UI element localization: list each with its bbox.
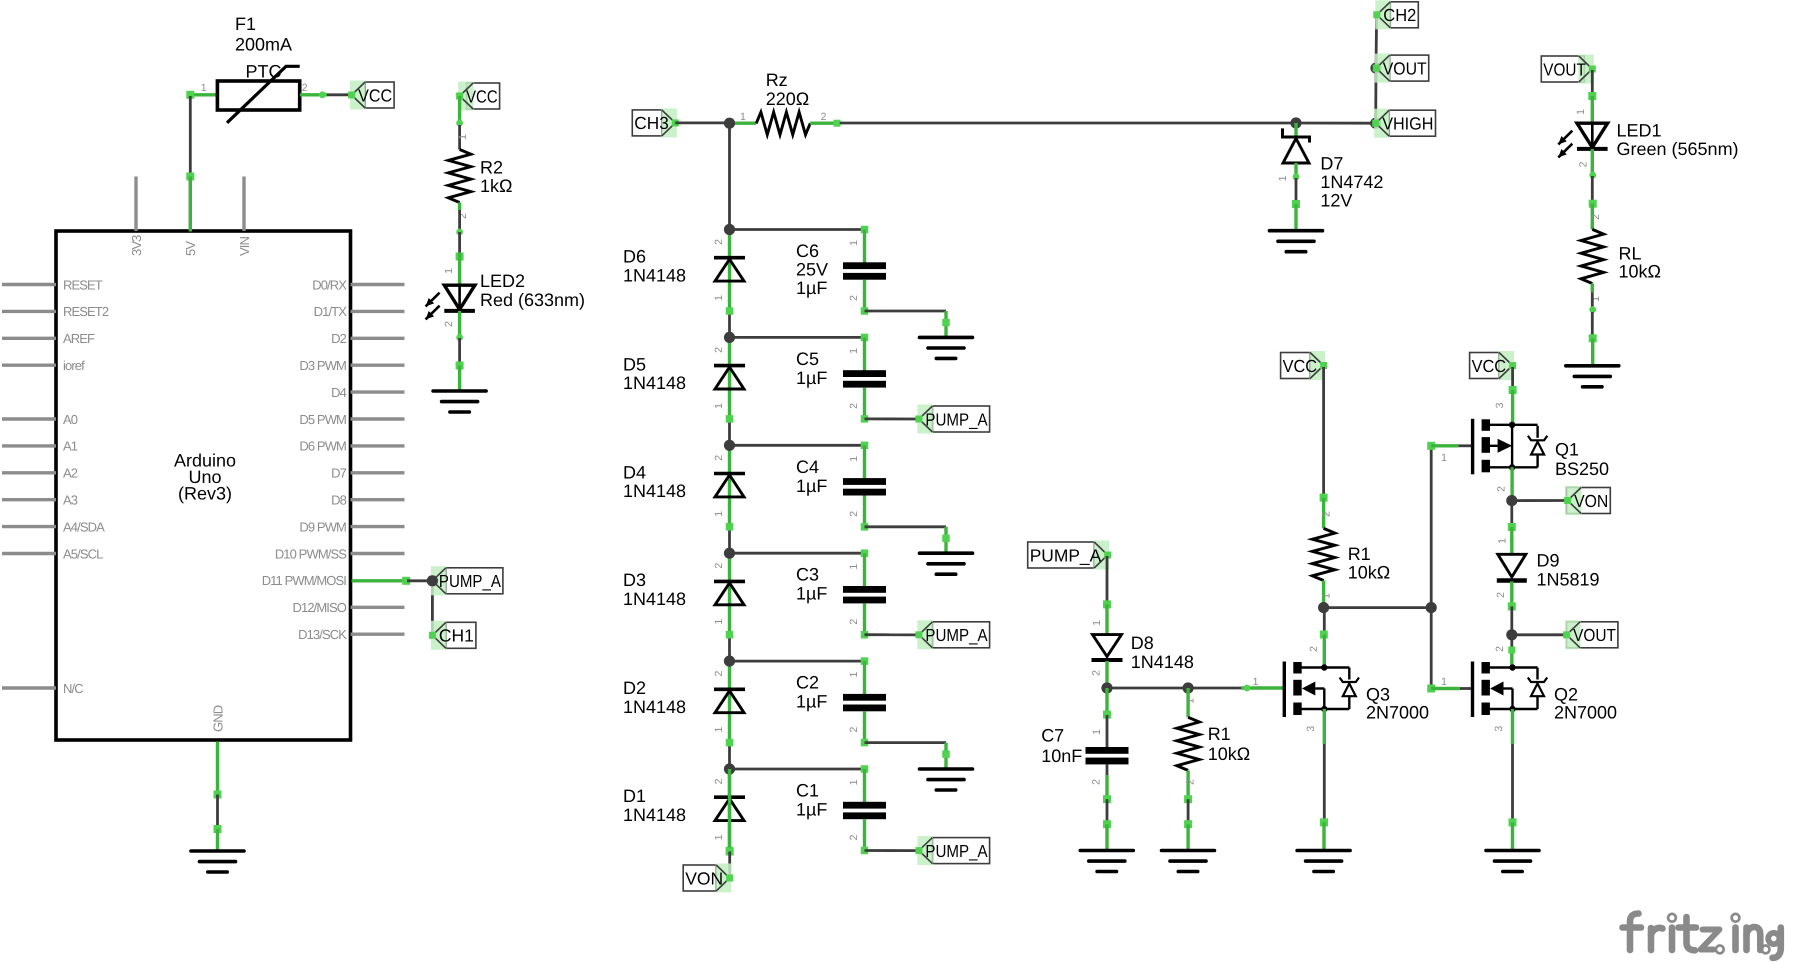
svg-text:PUMP_A: PUMP_A bbox=[925, 409, 987, 429]
svg-text:VOUT: VOUT bbox=[1573, 625, 1616, 645]
pin D3 PWM bbox=[351, 364, 405, 367]
svg-text:1µF: 1µF bbox=[796, 368, 827, 388]
svg-text:1: 1 bbox=[443, 268, 455, 274]
svg-text:D1/TX: D1/TX bbox=[314, 304, 348, 319]
svg-text:1: 1 bbox=[1575, 109, 1587, 115]
svg-text:A2: A2 bbox=[63, 466, 78, 481]
svg-text:ioref: ioref bbox=[63, 358, 85, 373]
node CH2 bbox=[1390, 2, 1418, 28]
node CH1 bbox=[446, 622, 476, 648]
resistor R1 10k (pullup) bbox=[1312, 528, 1335, 580]
wire gate bus vertical bbox=[1430, 446, 1433, 689]
pin D10 PWM/SS bbox=[351, 552, 405, 555]
svg-text:VCC: VCC bbox=[1472, 356, 1507, 376]
wire row to C6 bbox=[730, 228, 865, 231]
diode D4 1N4148 bbox=[714, 472, 745, 476]
wire row to C3 bbox=[730, 552, 865, 555]
svg-text:D7: D7 bbox=[1320, 154, 1343, 174]
op-amp U1 Arduino Uno body bbox=[56, 231, 351, 740]
ground bbox=[1080, 851, 1133, 872]
svg-text:1: 1 bbox=[713, 727, 725, 733]
svg-text:1: 1 bbox=[848, 564, 860, 570]
svg-text:D11 PWM/MOSI: D11 PWM/MOSI bbox=[262, 573, 347, 588]
wire VCC to R1 bbox=[1322, 367, 1325, 498]
svg-text:1µF: 1µF bbox=[796, 692, 827, 712]
ground bbox=[920, 337, 973, 358]
wire Q3 source to ground bbox=[1323, 709, 1326, 744]
ground bbox=[920, 769, 973, 790]
pin D6 PWM bbox=[351, 444, 405, 447]
wire node row D2 bbox=[728, 661, 731, 743]
wire row to C2 bbox=[730, 660, 865, 663]
svg-text:2: 2 bbox=[1321, 511, 1333, 517]
ground bbox=[1297, 851, 1350, 872]
node PUMP_A bbox=[932, 406, 989, 432]
wire Rz to VHIGH bbox=[810, 121, 840, 124]
node CH3 bbox=[632, 110, 662, 136]
wire node row D3 bbox=[728, 553, 731, 635]
svg-text:D7: D7 bbox=[331, 466, 346, 481]
node VCC bbox=[1281, 353, 1311, 379]
svg-text:R1: R1 bbox=[1348, 544, 1371, 564]
transistor Q1 BS250 bbox=[1471, 419, 1474, 475]
pin D5 PWM bbox=[351, 417, 405, 420]
diode D7 zener 1N4742 12V bbox=[1283, 128, 1310, 142]
capacitor C4 1uF bbox=[843, 478, 886, 485]
svg-text:D4: D4 bbox=[331, 385, 346, 400]
svg-text:1N4148: 1N4148 bbox=[1131, 652, 1194, 672]
svg-text:12V: 12V bbox=[1320, 191, 1352, 211]
wire RL to ground bbox=[1591, 284, 1594, 293]
svg-text:1: 1 bbox=[1441, 452, 1447, 464]
node VOUT bbox=[1567, 622, 1618, 648]
svg-text:1N4148: 1N4148 bbox=[623, 373, 686, 393]
diode D8 1N4148 bbox=[1093, 635, 1122, 657]
pin A4/SDA bbox=[2, 525, 56, 528]
svg-text:2: 2 bbox=[443, 321, 455, 327]
svg-text:2: 2 bbox=[848, 403, 860, 409]
node PUMP_A bbox=[932, 838, 989, 864]
wire VCC to Q1 source bbox=[1511, 367, 1514, 390]
svg-text:D6 PWM: D6 PWM bbox=[299, 439, 346, 454]
wire node row D6 bbox=[728, 230, 731, 312]
svg-text:3V3: 3V3 bbox=[129, 235, 144, 256]
svg-text:2: 2 bbox=[848, 834, 860, 840]
ground bbox=[1270, 231, 1323, 252]
pin D2 bbox=[351, 337, 405, 340]
wire Q2 source to ground bbox=[1511, 709, 1514, 744]
svg-text:CH1: CH1 bbox=[439, 626, 474, 646]
resistor R1 10k (gate) bbox=[1186, 688, 1189, 717]
capacitor C3 1uF bbox=[843, 586, 886, 593]
pin RESET2 bbox=[2, 310, 56, 313]
node PUMP_A bbox=[1028, 542, 1095, 568]
wire node row D5 bbox=[728, 337, 731, 419]
svg-text:PUMP_A: PUMP_A bbox=[925, 625, 987, 645]
node VOUT bbox=[1541, 56, 1584, 82]
svg-text:RL: RL bbox=[1619, 243, 1642, 263]
wire D9 to VOUT node bbox=[1510, 581, 1513, 606]
wire CH3 to junction bbox=[675, 122, 729, 125]
svg-text:1N4148: 1N4148 bbox=[623, 805, 686, 825]
pin AREF bbox=[2, 337, 56, 340]
svg-text:VCC: VCC bbox=[1283, 356, 1318, 376]
wire VON node to D9 bbox=[1510, 502, 1513, 527]
svg-text:1: 1 bbox=[1091, 729, 1103, 735]
pin 3V3 bbox=[134, 177, 137, 232]
svg-text:R1: R1 bbox=[1208, 724, 1231, 744]
svg-text:PTC: PTC bbox=[246, 62, 282, 82]
svg-text:D0/RX: D0/RX bbox=[312, 277, 347, 292]
svg-text:D5 PWM: D5 PWM bbox=[299, 412, 346, 427]
resistor R2 1k bbox=[448, 150, 471, 203]
svg-text:F1: F1 bbox=[235, 14, 256, 34]
wire C2 to ground bbox=[865, 741, 947, 744]
svg-text:2: 2 bbox=[848, 295, 860, 301]
svg-text:N/C: N/C bbox=[63, 681, 83, 696]
ground bbox=[433, 391, 486, 412]
svg-text:VOUT: VOUT bbox=[1383, 58, 1427, 78]
wire C5 to PUMP_A bbox=[865, 417, 919, 420]
svg-text:C2: C2 bbox=[796, 673, 819, 693]
diode D3 1N4148 bbox=[714, 580, 745, 584]
wire D8 to node bbox=[1105, 661, 1108, 688]
svg-text:1N4148: 1N4148 bbox=[623, 265, 686, 285]
svg-text:1µF: 1µF bbox=[796, 584, 827, 604]
svg-text:1: 1 bbox=[848, 456, 860, 462]
wire to Q1 gate bbox=[1431, 444, 1458, 447]
svg-text:1kΩ: 1kΩ bbox=[480, 176, 512, 196]
wire junction to Rz bbox=[733, 121, 756, 124]
wire CH2 to VHIGH bbox=[1375, 15, 1378, 68]
wire row to C5 bbox=[730, 336, 865, 339]
svg-text:2: 2 bbox=[1185, 779, 1197, 785]
svg-text:2: 2 bbox=[302, 82, 308, 94]
svg-text:C6: C6 bbox=[796, 241, 819, 261]
pin RESET bbox=[2, 283, 56, 286]
svg-text:3: 3 bbox=[1305, 726, 1317, 732]
wire PUMP_A to D8 bbox=[1106, 556, 1109, 604]
diode D5 1N4148 bbox=[714, 364, 745, 368]
pin A3 bbox=[2, 498, 56, 501]
diode D1 1N4148 bbox=[714, 795, 745, 799]
pin ioref bbox=[2, 364, 56, 367]
svg-text:1N5819: 1N5819 bbox=[1537, 570, 1600, 590]
wire fuse to VCC bbox=[300, 93, 327, 96]
svg-text:10kΩ: 10kΩ bbox=[1348, 563, 1390, 583]
svg-text:25V: 25V bbox=[796, 260, 828, 280]
svg-text:1: 1 bbox=[1497, 538, 1509, 544]
svg-text:220Ω: 220Ω bbox=[766, 89, 810, 109]
svg-text:2: 2 bbox=[713, 239, 725, 245]
wire 5V to fuse bbox=[189, 93, 192, 97]
node VHIGH bbox=[1389, 110, 1435, 136]
pin N/C bbox=[2, 686, 56, 689]
capacitor C6 1uF bbox=[843, 262, 886, 269]
svg-text:A4/SDA: A4/SDA bbox=[63, 519, 105, 534]
wire ladder top bbox=[728, 123, 731, 229]
svg-text:2: 2 bbox=[713, 347, 725, 353]
svg-text:C1: C1 bbox=[796, 781, 819, 801]
svg-text:1: 1 bbox=[848, 348, 860, 354]
svg-text:VOUT: VOUT bbox=[1543, 59, 1586, 79]
svg-text:Rz: Rz bbox=[766, 70, 788, 90]
svg-text:1N4148: 1N4148 bbox=[623, 481, 686, 501]
node PUMP_A bbox=[932, 622, 989, 648]
diode D9 1N5819 bbox=[1498, 554, 1526, 577]
wire to VOUT label bbox=[1512, 633, 1567, 636]
svg-text:GND: GND bbox=[210, 705, 225, 732]
svg-text:Red (633nm): Red (633nm) bbox=[480, 290, 585, 310]
wire C1 to PUMP_A bbox=[865, 849, 919, 852]
pin D0/RX bbox=[351, 283, 405, 286]
svg-text:R2: R2 bbox=[480, 158, 503, 178]
diode D6 1N4148 bbox=[714, 256, 745, 260]
svg-text:5V: 5V bbox=[183, 241, 198, 256]
svg-text:PUMP_A: PUMP_A bbox=[439, 571, 501, 591]
svg-text:3: 3 bbox=[1494, 402, 1506, 408]
pin D1/TX bbox=[351, 310, 405, 313]
svg-text:3: 3 bbox=[1493, 726, 1505, 732]
wire C3 to PUMP_A bbox=[865, 633, 919, 636]
svg-text:1: 1 bbox=[740, 111, 746, 123]
svg-text:2: 2 bbox=[1496, 486, 1508, 492]
svg-text:LED1: LED1 bbox=[1617, 120, 1662, 140]
svg-text:1: 1 bbox=[713, 619, 725, 625]
capacitor C7 10nF bbox=[1105, 688, 1108, 715]
node VON bbox=[683, 865, 716, 891]
svg-text:C5: C5 bbox=[796, 349, 819, 369]
svg-text:D1: D1 bbox=[623, 786, 646, 806]
pin D9 PWM bbox=[351, 525, 405, 528]
svg-text:1N4742: 1N4742 bbox=[1320, 172, 1383, 192]
svg-text:LED2: LED2 bbox=[480, 271, 525, 291]
svg-text:10nF: 10nF bbox=[1041, 746, 1082, 766]
svg-text:10kΩ: 10kΩ bbox=[1619, 262, 1661, 282]
wire node row D1 bbox=[728, 769, 731, 851]
wire Q1 drain to VON node bbox=[1510, 467, 1513, 500]
svg-text:1N4148: 1N4148 bbox=[623, 697, 686, 717]
wire junction to CH1 bbox=[431, 581, 434, 636]
svg-text:D9 PWM: D9 PWM bbox=[299, 519, 346, 534]
svg-text:1: 1 bbox=[1091, 620, 1103, 626]
svg-text:2: 2 bbox=[713, 455, 725, 461]
wire node to Q3 gate bbox=[1107, 687, 1241, 690]
pin VIN bbox=[242, 177, 245, 232]
svg-text:1: 1 bbox=[713, 834, 725, 840]
node VCC bbox=[1470, 353, 1500, 379]
capacitor C2 1uF bbox=[843, 694, 886, 701]
svg-text:D12/MISO: D12/MISO bbox=[293, 600, 347, 615]
svg-text:2N7000: 2N7000 bbox=[1554, 703, 1617, 723]
svg-text:2: 2 bbox=[848, 727, 860, 733]
pin D12/MISO bbox=[351, 606, 405, 609]
svg-text:A3: A3 bbox=[63, 493, 78, 508]
svg-text:2N7000: 2N7000 bbox=[1366, 703, 1429, 723]
svg-text:10kΩ: 10kΩ bbox=[1208, 744, 1250, 764]
svg-text:VIN: VIN bbox=[237, 237, 252, 256]
wire node row D4 bbox=[728, 445, 731, 527]
ground bbox=[1162, 851, 1215, 872]
svg-text:C4: C4 bbox=[796, 457, 819, 477]
node VON bbox=[1567, 488, 1611, 514]
svg-text:D13/SCK: D13/SCK bbox=[298, 627, 347, 642]
svg-text:2: 2 bbox=[848, 619, 860, 625]
svg-text:D8: D8 bbox=[1131, 633, 1154, 653]
svg-text:A0: A0 bbox=[63, 412, 78, 427]
svg-text:2: 2 bbox=[1308, 646, 1320, 652]
svg-text:D2: D2 bbox=[623, 678, 646, 698]
wire VOUT to LED1 bbox=[1591, 70, 1594, 96]
transistor Q3 2N7000 bbox=[1283, 662, 1286, 718]
ground bbox=[920, 553, 973, 574]
svg-text:2: 2 bbox=[1091, 670, 1103, 676]
ground bbox=[1486, 851, 1539, 872]
svg-text:2: 2 bbox=[821, 111, 827, 123]
svg-text:1µF: 1µF bbox=[796, 800, 827, 820]
svg-text:1N4148: 1N4148 bbox=[623, 589, 686, 609]
svg-text:2: 2 bbox=[1578, 161, 1590, 167]
svg-text:C3: C3 bbox=[796, 565, 819, 585]
svg-text:Q1: Q1 bbox=[1555, 440, 1579, 460]
pin D8 bbox=[351, 498, 405, 501]
node VOUT bbox=[1390, 55, 1429, 81]
svg-text:2: 2 bbox=[1494, 646, 1506, 652]
fritzing logo bbox=[1623, 914, 1781, 958]
svg-text:D9: D9 bbox=[1537, 551, 1560, 571]
diode D2 1N4148 bbox=[714, 687, 745, 691]
svg-text:D2: D2 bbox=[331, 331, 346, 346]
svg-text:CH2: CH2 bbox=[1383, 5, 1416, 25]
pin A2 bbox=[2, 471, 56, 474]
svg-text:A5/SCL: A5/SCL bbox=[63, 546, 103, 561]
svg-text:1: 1 bbox=[713, 511, 725, 517]
wire to Q2 gate bbox=[1427, 685, 1435, 693]
ground bbox=[1566, 366, 1619, 387]
wire VHIGH junction to D7 bbox=[1294, 123, 1297, 137]
svg-text:Green (565nm): Green (565nm) bbox=[1617, 139, 1739, 159]
svg-text:VON: VON bbox=[1574, 491, 1608, 511]
node VCC bbox=[467, 83, 500, 109]
svg-text:RESET2: RESET2 bbox=[63, 304, 109, 319]
svg-text:1: 1 bbox=[848, 779, 860, 785]
wire node row bbox=[1324, 606, 1432, 609]
wire drain Q3 to node bbox=[1323, 608, 1326, 635]
fuse F1 PTC bbox=[217, 81, 299, 110]
svg-text:1: 1 bbox=[1277, 175, 1289, 181]
pin A1 bbox=[2, 444, 56, 447]
svg-text:1: 1 bbox=[457, 134, 469, 140]
svg-text:C7: C7 bbox=[1041, 726, 1064, 746]
svg-text:PUMP_A: PUMP_A bbox=[925, 841, 987, 861]
svg-text:D3 PWM: D3 PWM bbox=[299, 358, 346, 373]
pin D7 bbox=[351, 471, 405, 474]
svg-text:2: 2 bbox=[1495, 592, 1507, 598]
svg-text:1: 1 bbox=[713, 403, 725, 409]
wire D7 to ground bbox=[1294, 163, 1297, 178]
wire row to C4 bbox=[730, 444, 865, 447]
pin A0 bbox=[2, 417, 56, 420]
wire R2 to LED2 bbox=[458, 203, 461, 211]
wire D1 to VON bbox=[728, 769, 731, 852]
node VCC bbox=[365, 82, 394, 108]
pin D13/SCK bbox=[351, 633, 405, 636]
wire VCC to R2 bbox=[458, 96, 461, 125]
svg-text:1: 1 bbox=[848, 240, 860, 246]
wire C4 to ground bbox=[865, 525, 947, 528]
svg-text:D8: D8 bbox=[331, 493, 346, 508]
svg-text:1: 1 bbox=[1441, 676, 1447, 688]
wire GND to ground bbox=[216, 742, 219, 795]
svg-text:1: 1 bbox=[1321, 593, 1333, 599]
svg-text:2: 2 bbox=[713, 671, 725, 677]
svg-text:Q2: Q2 bbox=[1554, 685, 1578, 705]
svg-text:D10 PWM/SS: D10 PWM/SS bbox=[275, 546, 347, 561]
svg-text:VCC: VCC bbox=[358, 85, 392, 105]
capacitor C1 1uF bbox=[843, 802, 886, 809]
svg-text:VHIGH: VHIGH bbox=[1382, 114, 1433, 134]
wire C6 to ground bbox=[865, 310, 947, 313]
wire VOUT node to Q2 drain bbox=[1510, 635, 1513, 650]
svg-text:1: 1 bbox=[1253, 676, 1259, 688]
pin A5/SCL bbox=[2, 552, 56, 555]
svg-text:1: 1 bbox=[201, 82, 207, 94]
svg-text:2: 2 bbox=[1091, 779, 1103, 785]
svg-text:1µF: 1µF bbox=[796, 278, 827, 298]
transistor Q2 2N7000 bbox=[1471, 662, 1474, 718]
svg-text:200mA: 200mA bbox=[235, 35, 292, 55]
svg-text:(Rev3): (Rev3) bbox=[178, 484, 232, 504]
svg-text:D5: D5 bbox=[623, 354, 646, 374]
wire row to C1 bbox=[730, 768, 865, 771]
svg-text:D4: D4 bbox=[623, 462, 646, 482]
svg-text:D3: D3 bbox=[623, 570, 646, 590]
svg-text:BS250: BS250 bbox=[1555, 459, 1609, 479]
svg-text:1: 1 bbox=[848, 672, 860, 678]
svg-text:A1: A1 bbox=[63, 439, 78, 454]
svg-text:2: 2 bbox=[713, 563, 725, 569]
svg-text:1µF: 1µF bbox=[796, 476, 827, 496]
svg-text:D6: D6 bbox=[623, 247, 646, 267]
svg-text:1: 1 bbox=[713, 295, 725, 301]
ground bbox=[191, 851, 244, 872]
svg-text:2: 2 bbox=[1590, 214, 1602, 220]
resistor RL 10k bbox=[1581, 229, 1604, 283]
node PUMP_A bbox=[446, 568, 503, 594]
pin D4 bbox=[351, 390, 405, 393]
svg-text:Q3: Q3 bbox=[1366, 685, 1390, 705]
svg-text:2: 2 bbox=[848, 511, 860, 517]
capacitor C5 1uF bbox=[843, 370, 886, 377]
svg-text:CH3: CH3 bbox=[634, 113, 669, 133]
svg-text:PUMP_A: PUMP_A bbox=[1030, 545, 1102, 565]
svg-text:1: 1 bbox=[1185, 698, 1197, 704]
LED LED1 Green bbox=[1577, 123, 1608, 147]
svg-text:AREF: AREF bbox=[63, 331, 95, 346]
wire D11 to PUMP_A bbox=[352, 579, 407, 582]
svg-text:VCC: VCC bbox=[466, 86, 498, 106]
svg-text:VON: VON bbox=[685, 868, 723, 888]
wire to VON label bbox=[1512, 499, 1568, 502]
svg-text:RESET: RESET bbox=[63, 277, 103, 292]
resistor Rz 220 bbox=[756, 112, 810, 135]
pin 5V bbox=[189, 177, 192, 232]
LED LED2 Red bbox=[444, 285, 475, 309]
svg-text:2: 2 bbox=[713, 778, 725, 784]
